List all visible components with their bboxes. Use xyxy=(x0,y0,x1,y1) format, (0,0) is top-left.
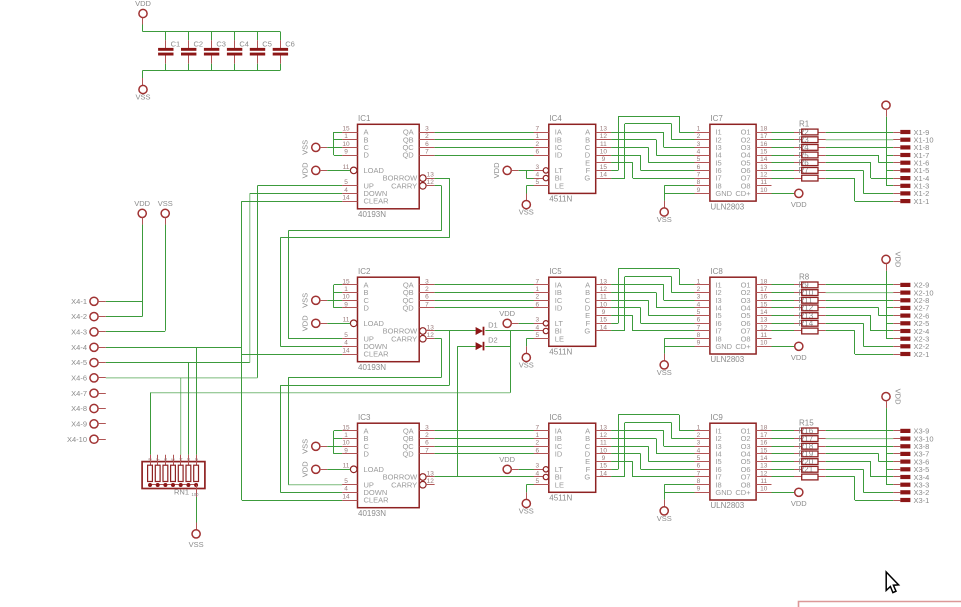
svg-text:5: 5 xyxy=(171,458,177,461)
svg-text:16: 16 xyxy=(760,141,768,148)
svg-text:14: 14 xyxy=(760,309,768,316)
svg-text:VSS: VSS xyxy=(301,293,310,308)
svg-text:1: 1 xyxy=(344,133,348,140)
svg-text:3: 3 xyxy=(697,141,701,148)
svg-text:5: 5 xyxy=(344,478,348,485)
svg-text:12: 12 xyxy=(600,286,608,293)
svg-text:1: 1 xyxy=(535,432,539,439)
svg-text:17: 17 xyxy=(760,133,768,140)
svg-text:LOAD: LOAD xyxy=(364,319,385,328)
svg-text:IC6: IC6 xyxy=(549,413,562,422)
svg-text:15: 15 xyxy=(760,148,768,155)
svg-text:1: 1 xyxy=(344,286,348,293)
svg-text:CARRY: CARRY xyxy=(391,480,417,489)
svg-text:7: 7 xyxy=(697,172,701,179)
svg-text:8: 8 xyxy=(697,179,701,186)
svg-text:7: 7 xyxy=(425,447,429,454)
svg-text:X2-1: X2-1 xyxy=(914,350,930,359)
svg-text:7: 7 xyxy=(697,324,701,331)
svg-text:X4-8: X4-8 xyxy=(71,404,87,413)
svg-text:3: 3 xyxy=(697,294,701,301)
svg-text:1: 1 xyxy=(344,432,348,439)
svg-text:14: 14 xyxy=(600,470,608,477)
svg-text:X1-1: X1-1 xyxy=(914,197,930,206)
svg-text:VDD: VDD xyxy=(134,199,150,208)
svg-text:13: 13 xyxy=(760,463,768,470)
svg-text:VSS: VSS xyxy=(189,540,204,549)
svg-text:VSS: VSS xyxy=(657,514,672,523)
svg-text:VSS: VSS xyxy=(158,199,173,208)
svg-text:CLEAR: CLEAR xyxy=(364,496,390,505)
svg-text:9: 9 xyxy=(602,156,606,163)
svg-text:GND: GND xyxy=(715,488,732,497)
svg-text:VDD: VDD xyxy=(499,455,515,464)
svg-text:8: 8 xyxy=(697,478,701,485)
svg-text:40193N: 40193N xyxy=(358,363,386,372)
svg-text:5: 5 xyxy=(697,455,701,462)
svg-text:6: 6 xyxy=(425,440,429,447)
svg-text:4: 4 xyxy=(344,486,348,493)
svg-text:6: 6 xyxy=(535,301,539,308)
svg-text:13: 13 xyxy=(427,172,435,179)
svg-text:12: 12 xyxy=(760,172,768,179)
svg-text:VSS: VSS xyxy=(301,140,310,155)
svg-text:15: 15 xyxy=(342,125,350,132)
svg-text:10: 10 xyxy=(600,148,608,155)
svg-text:VSS: VSS xyxy=(135,93,150,102)
svg-text:13: 13 xyxy=(760,164,768,171)
svg-text:IC4: IC4 xyxy=(549,114,562,123)
svg-text:G: G xyxy=(584,473,590,482)
svg-text:G: G xyxy=(584,327,590,336)
svg-text:VDD: VDD xyxy=(894,389,903,405)
svg-text:QD: QD xyxy=(402,151,414,160)
svg-text:QD: QD xyxy=(402,304,414,313)
svg-text:VSS: VSS xyxy=(657,215,672,224)
svg-text:16: 16 xyxy=(760,440,768,447)
svg-text:12: 12 xyxy=(760,324,768,331)
svg-text:3: 3 xyxy=(186,458,192,461)
svg-text:7: 7 xyxy=(155,458,161,461)
svg-text:QD: QD xyxy=(402,450,414,459)
svg-text:ID: ID xyxy=(555,151,563,160)
svg-text:11: 11 xyxy=(760,179,767,186)
svg-text:10: 10 xyxy=(760,486,768,493)
svg-text:7: 7 xyxy=(535,125,539,132)
svg-text:ID: ID xyxy=(555,450,563,459)
svg-text:2: 2 xyxy=(194,458,200,461)
svg-text:VSS: VSS xyxy=(519,361,534,370)
svg-text:15: 15 xyxy=(600,463,608,470)
svg-text:X4-10: X4-10 xyxy=(67,435,87,444)
svg-text:D: D xyxy=(364,450,370,459)
svg-text:14: 14 xyxy=(342,195,350,202)
svg-text:9: 9 xyxy=(697,187,701,194)
svg-text:2: 2 xyxy=(425,432,429,439)
svg-text:18: 18 xyxy=(760,278,768,285)
svg-text:14: 14 xyxy=(600,172,608,179)
svg-text:13: 13 xyxy=(600,424,608,431)
svg-text:14: 14 xyxy=(342,493,350,500)
svg-text:6: 6 xyxy=(535,447,539,454)
svg-text:12: 12 xyxy=(600,133,608,140)
svg-text:12: 12 xyxy=(427,332,435,339)
svg-text:9: 9 xyxy=(344,148,348,155)
svg-text:X4-3: X4-3 xyxy=(71,328,87,337)
svg-text:VDD: VDD xyxy=(301,162,310,178)
svg-text:1: 1 xyxy=(697,278,701,285)
svg-text:IC8: IC8 xyxy=(710,267,723,276)
svg-text:IC9: IC9 xyxy=(710,413,723,422)
svg-text:6: 6 xyxy=(697,463,701,470)
svg-text:C1: C1 xyxy=(171,39,181,48)
svg-text:9: 9 xyxy=(697,340,701,347)
svg-text:GND: GND xyxy=(715,189,732,198)
svg-text:1: 1 xyxy=(535,133,539,140)
svg-text:3: 3 xyxy=(535,164,539,171)
svg-text:11: 11 xyxy=(760,332,767,339)
svg-text:4: 4 xyxy=(535,172,539,179)
svg-text:CARRY: CARRY xyxy=(391,334,417,343)
svg-text:3: 3 xyxy=(425,125,429,132)
svg-text:RN1: RN1 xyxy=(174,488,189,497)
svg-text:VDD: VDD xyxy=(791,353,807,362)
svg-text:13: 13 xyxy=(600,278,608,285)
svg-text:VDD: VDD xyxy=(499,309,515,318)
svg-text:18: 18 xyxy=(760,424,768,431)
svg-text:40193N: 40193N xyxy=(358,210,386,219)
svg-text:5: 5 xyxy=(535,179,539,186)
svg-text:3: 3 xyxy=(535,317,539,324)
svg-text:X4-4: X4-4 xyxy=(71,343,87,352)
svg-text:15: 15 xyxy=(760,301,768,308)
svg-text:7: 7 xyxy=(425,148,429,155)
svg-text:7: 7 xyxy=(535,278,539,285)
svg-text:VDD: VDD xyxy=(791,499,807,508)
svg-text:D: D xyxy=(364,151,370,160)
svg-text:X3-1: X3-1 xyxy=(914,496,930,505)
svg-text:4: 4 xyxy=(178,458,184,461)
svg-text:C4: C4 xyxy=(239,39,249,48)
svg-text:5: 5 xyxy=(535,332,539,339)
svg-text:7: 7 xyxy=(425,301,429,308)
svg-text:100: 100 xyxy=(192,492,200,497)
svg-text:10: 10 xyxy=(760,187,768,194)
svg-text:12: 12 xyxy=(427,179,435,186)
svg-text:GND: GND xyxy=(715,342,732,351)
svg-text:CARRY: CARRY xyxy=(391,181,417,190)
svg-text:12: 12 xyxy=(760,470,768,477)
svg-text:LE: LE xyxy=(555,480,564,489)
svg-text:9: 9 xyxy=(602,455,606,462)
svg-text:VSS: VSS xyxy=(301,439,310,454)
svg-text:11: 11 xyxy=(600,294,607,301)
svg-text:D2: D2 xyxy=(488,336,498,345)
svg-text:15: 15 xyxy=(600,317,608,324)
svg-text:13: 13 xyxy=(760,317,768,324)
svg-text:4: 4 xyxy=(535,324,539,331)
svg-text:LOAD: LOAD xyxy=(364,465,385,474)
svg-text:2: 2 xyxy=(535,141,539,148)
svg-text:2: 2 xyxy=(535,440,539,447)
svg-text:G: G xyxy=(584,174,590,183)
svg-text:17: 17 xyxy=(760,432,768,439)
svg-text:10: 10 xyxy=(342,141,350,148)
svg-text:4: 4 xyxy=(697,148,701,155)
svg-text:LE: LE xyxy=(555,334,564,343)
svg-text:11: 11 xyxy=(343,463,350,470)
svg-text:8: 8 xyxy=(148,458,154,461)
svg-text:X4-9: X4-9 xyxy=(71,420,87,429)
svg-text:CD+: CD+ xyxy=(735,342,751,351)
svg-text:2: 2 xyxy=(425,133,429,140)
svg-text:2: 2 xyxy=(697,133,701,140)
svg-text:14: 14 xyxy=(342,347,350,354)
svg-text:15: 15 xyxy=(342,278,350,285)
svg-text:C5: C5 xyxy=(262,39,272,48)
svg-text:LOAD: LOAD xyxy=(364,166,385,175)
svg-text:11: 11 xyxy=(600,440,607,447)
svg-text:40193N: 40193N xyxy=(358,509,386,518)
svg-text:2: 2 xyxy=(425,286,429,293)
svg-text:11: 11 xyxy=(600,141,607,148)
svg-text:4511N: 4511N xyxy=(549,348,572,357)
svg-text:10: 10 xyxy=(342,294,350,301)
svg-text:VDD: VDD xyxy=(301,315,310,331)
svg-text:13: 13 xyxy=(427,324,435,331)
svg-text:9: 9 xyxy=(344,447,348,454)
svg-text:4511N: 4511N xyxy=(549,195,572,204)
svg-text:11: 11 xyxy=(343,317,350,324)
svg-text:ULN2803: ULN2803 xyxy=(710,202,744,211)
svg-text:ID: ID xyxy=(555,304,563,313)
svg-text:12: 12 xyxy=(600,432,608,439)
svg-text:IC5: IC5 xyxy=(549,267,562,276)
svg-text:8: 8 xyxy=(697,332,701,339)
svg-text:1: 1 xyxy=(697,424,701,431)
svg-text:VDD: VDD xyxy=(894,251,903,267)
svg-text:VSS: VSS xyxy=(519,507,534,516)
svg-text:3: 3 xyxy=(425,278,429,285)
svg-text:2: 2 xyxy=(697,286,701,293)
svg-text:5: 5 xyxy=(344,332,348,339)
svg-text:2: 2 xyxy=(535,294,539,301)
svg-text:2: 2 xyxy=(697,432,701,439)
svg-text:IC1: IC1 xyxy=(358,114,371,123)
svg-text:CD+: CD+ xyxy=(735,189,751,198)
svg-text:CLEAR: CLEAR xyxy=(364,197,390,206)
svg-text:13: 13 xyxy=(427,470,435,477)
svg-text:11: 11 xyxy=(760,478,767,485)
svg-text:10: 10 xyxy=(600,301,608,308)
svg-text:17: 17 xyxy=(760,286,768,293)
svg-text:D1: D1 xyxy=(488,321,498,330)
svg-text:C6: C6 xyxy=(285,39,295,48)
svg-text:6: 6 xyxy=(425,141,429,148)
svg-text:15: 15 xyxy=(760,447,768,454)
svg-text:CD+: CD+ xyxy=(735,488,751,497)
svg-text:6: 6 xyxy=(697,317,701,324)
svg-text:D: D xyxy=(364,304,370,313)
svg-text:14: 14 xyxy=(760,156,768,163)
svg-text:VDD: VDD xyxy=(135,0,151,8)
svg-text:IC7: IC7 xyxy=(710,114,723,123)
svg-text:3: 3 xyxy=(697,440,701,447)
svg-text:18: 18 xyxy=(760,125,768,132)
svg-text:4511N: 4511N xyxy=(549,494,572,503)
svg-text:IC3: IC3 xyxy=(358,413,371,422)
svg-text:3: 3 xyxy=(535,463,539,470)
svg-text:10: 10 xyxy=(342,440,350,447)
svg-text:6: 6 xyxy=(163,458,169,461)
svg-text:16: 16 xyxy=(760,294,768,301)
svg-text:5: 5 xyxy=(535,478,539,485)
svg-text:X4-7: X4-7 xyxy=(71,389,87,398)
svg-text:C3: C3 xyxy=(216,39,226,48)
svg-text:X4-1: X4-1 xyxy=(71,297,87,306)
svg-text:4: 4 xyxy=(535,470,539,477)
svg-text:6: 6 xyxy=(535,148,539,155)
svg-text:LE: LE xyxy=(555,181,564,190)
svg-text:12: 12 xyxy=(427,478,435,485)
svg-text:VDD: VDD xyxy=(791,200,807,209)
svg-text:VDD: VDD xyxy=(301,461,310,477)
svg-text:14: 14 xyxy=(760,455,768,462)
svg-text:14: 14 xyxy=(600,324,608,331)
svg-text:15: 15 xyxy=(600,164,608,171)
svg-text:CLEAR: CLEAR xyxy=(364,350,390,359)
svg-text:4: 4 xyxy=(344,187,348,194)
svg-text:9: 9 xyxy=(602,309,606,316)
svg-text:5: 5 xyxy=(697,156,701,163)
svg-text:6: 6 xyxy=(697,164,701,171)
svg-text:3: 3 xyxy=(425,424,429,431)
svg-text:VDD: VDD xyxy=(492,162,501,178)
svg-text:7: 7 xyxy=(535,424,539,431)
svg-text:4: 4 xyxy=(697,447,701,454)
svg-text:10: 10 xyxy=(760,340,768,347)
svg-text:VSS: VSS xyxy=(657,368,672,377)
svg-text:10: 10 xyxy=(600,447,608,454)
svg-text:ULN2803: ULN2803 xyxy=(710,355,744,364)
svg-text:13: 13 xyxy=(600,125,608,132)
svg-text:X4-5: X4-5 xyxy=(71,358,87,367)
svg-text:9: 9 xyxy=(344,301,348,308)
svg-text:5: 5 xyxy=(344,179,348,186)
svg-text:X4-2: X4-2 xyxy=(71,312,87,321)
svg-text:1: 1 xyxy=(535,286,539,293)
svg-text:4: 4 xyxy=(344,340,348,347)
svg-text:11: 11 xyxy=(343,164,350,171)
svg-text:9: 9 xyxy=(697,486,701,493)
svg-text:IC2: IC2 xyxy=(358,267,371,276)
svg-text:4: 4 xyxy=(697,301,701,308)
svg-text:7: 7 xyxy=(697,470,701,477)
svg-text:1: 1 xyxy=(697,125,701,132)
svg-text:X4-6: X4-6 xyxy=(71,374,87,383)
svg-text:ULN2803: ULN2803 xyxy=(710,501,744,510)
svg-text:C2: C2 xyxy=(194,39,204,48)
svg-text:15: 15 xyxy=(342,424,350,431)
svg-text:5: 5 xyxy=(697,309,701,316)
svg-text:6: 6 xyxy=(425,294,429,301)
svg-text:VSS: VSS xyxy=(519,208,534,217)
